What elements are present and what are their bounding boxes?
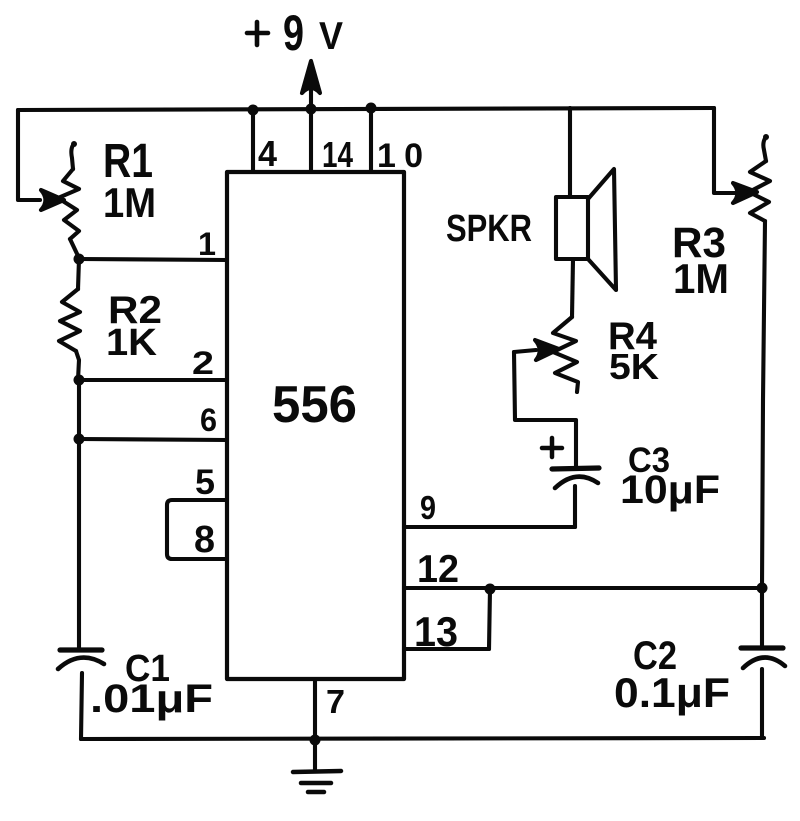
+9V arrow bbox=[302, 61, 320, 109]
svg-text:1: 1 bbox=[198, 226, 216, 262]
wire pin 12 bbox=[404, 586, 762, 590]
node junction pin7/ground rail bbox=[310, 735, 321, 746]
node on rail at pin 10 bbox=[366, 103, 377, 114]
op IC U1 556 rectangle bbox=[227, 172, 404, 679]
wire pin 10 bbox=[369, 108, 373, 172]
svg-text:1K: 1K bbox=[106, 322, 158, 364]
capacitor C3 plates bbox=[552, 468, 599, 527]
label +9V bbox=[247, 5, 343, 61]
wire pin 2 bbox=[79, 378, 227, 382]
svg-text:6: 6 bbox=[200, 402, 217, 438]
node junction pin6 bbox=[74, 434, 85, 445]
svg-text:9: 9 bbox=[420, 489, 436, 526]
wire pin 4 bbox=[251, 110, 255, 172]
svg-text:10μF: 10μF bbox=[620, 468, 720, 512]
potentiometer R4 5K bbox=[553, 317, 578, 392]
svg-text:9: 9 bbox=[283, 5, 304, 61]
wire speaker drop from rail bbox=[568, 108, 572, 197]
wire speaker to R4 bbox=[572, 259, 573, 317]
wire down to C1 bbox=[77, 439, 81, 649]
node junction pin12/pin13 bbox=[485, 584, 496, 595]
wire top +9V rail bbox=[18, 108, 714, 110]
svg-text:556: 556 bbox=[272, 376, 357, 434]
svg-text:7: 7 bbox=[326, 683, 345, 720]
wire R3 corner to wiper bbox=[714, 108, 739, 193]
potentiometer R3 1M bbox=[749, 134, 770, 588]
arrow R3 wiper bbox=[733, 183, 757, 203]
node junction R1/R2/pin1 bbox=[74, 254, 85, 265]
wire bottom ground rail bbox=[81, 738, 764, 739]
svg-text:1M: 1M bbox=[103, 179, 156, 226]
svg-text:4: 4 bbox=[258, 133, 277, 174]
svg-text:V: V bbox=[319, 15, 343, 58]
wire from pin2 node down to pin6 node bbox=[77, 380, 81, 439]
svg-text:10: 10 bbox=[377, 137, 423, 175]
node junction R2/pin2 bbox=[74, 375, 85, 386]
svg-text:14: 14 bbox=[322, 134, 353, 175]
svg-text:13: 13 bbox=[414, 608, 458, 655]
svg-text:12: 12 bbox=[417, 548, 459, 591]
wire pin 7 bbox=[313, 679, 317, 740]
svg-text:8: 8 bbox=[194, 519, 215, 561]
speaker SPKR bbox=[556, 169, 616, 290]
wire pin 13 riser bbox=[489, 589, 490, 649]
wire pin 1 bbox=[79, 259, 227, 260]
node on rail at pin 4 bbox=[248, 105, 259, 116]
svg-text:5K: 5K bbox=[609, 346, 659, 387]
resistor R2 1K bbox=[59, 259, 80, 380]
ground symbol bbox=[293, 740, 341, 792]
svg-text:SPKR: SPKR bbox=[446, 208, 532, 250]
arrow R1 wiper bbox=[41, 190, 64, 210]
wire pin 13 bbox=[404, 647, 489, 651]
svg-text:5: 5 bbox=[195, 463, 215, 502]
wire left rail down to R1 wiper bbox=[18, 110, 40, 200]
svg-text:1M: 1M bbox=[673, 255, 729, 302]
capacitor C3 10uF polarity + bbox=[542, 438, 562, 457]
arrow R4 wiper bbox=[514, 340, 559, 360]
svg-text:2: 2 bbox=[192, 345, 214, 381]
svg-text:.01μF: .01μF bbox=[90, 677, 213, 721]
capacitor C2 0.1uF bbox=[741, 588, 785, 738]
wire pin 14 bbox=[309, 109, 313, 172]
wire pin 9 bbox=[404, 525, 575, 529]
capacitor C1 .01uF bbox=[58, 650, 104, 739]
node on rail at pin 14 bbox=[306, 104, 317, 115]
potentiometer R1 1M bbox=[58, 141, 79, 258]
wire loop pins 5-8 bbox=[167, 500, 227, 559]
wire R4 wiper down to C3 bbox=[514, 352, 576, 468]
svg-text:0.1μF: 0.1μF bbox=[614, 669, 730, 716]
wire pin 6 bbox=[79, 439, 227, 440]
node junction pin12/C2/R3 bbox=[757, 583, 768, 594]
